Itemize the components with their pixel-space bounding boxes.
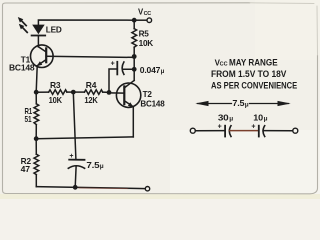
svg-text:AS PER CONVENIENCE: AS PER CONVENIENCE (211, 81, 297, 91)
wire T1 base to R5 node (46, 56, 134, 57)
svg-text:μ: μ (100, 163, 104, 170)
transistor T1 (31, 45, 54, 68)
svg-text:BC148: BC148 (140, 100, 165, 109)
svg-text:+: + (69, 153, 73, 160)
svg-text:7.5: 7.5 (232, 99, 245, 108)
wire T2 base to R4 node (109, 92, 124, 94)
node junction left rail mid (34, 136, 39, 141)
wire top rail (38, 20, 134, 25)
svg-text:12K: 12K (84, 96, 97, 105)
svg-text:T2: T2 (143, 90, 153, 99)
svg-text:CC: CC (220, 62, 228, 68)
svg-text:10K: 10K (139, 39, 154, 48)
node junction 7.5u cap / bottom rail (73, 185, 78, 190)
svg-text:R4: R4 (86, 81, 97, 90)
wire mid horizontal (T2 emitter return) (36, 137, 133, 139)
wire to right terminal (263, 130, 293, 132)
svg-text:μ: μ (161, 68, 165, 75)
svg-text:+: + (251, 124, 255, 131)
note text block (211, 57, 297, 90)
LED light arrows (18, 17, 27, 32)
svg-text:30: 30 (218, 113, 229, 122)
capacitor C1 0.047u (109, 62, 134, 93)
svg-text:10: 10 (253, 113, 263, 122)
transistor T2 (116, 80, 140, 107)
svg-text:+: + (218, 124, 222, 131)
node junction R3/R4 (71, 90, 76, 95)
node junction top (R5/rail) (132, 18, 137, 23)
resistor R3 (36, 90, 73, 95)
wire to 30u cap (195, 130, 225, 132)
LED D1 (32, 25, 46, 47)
node junction R5 bottom (132, 54, 137, 59)
resistor R2 (34, 139, 39, 187)
node output terminal bottom (145, 187, 149, 191)
svg-text:FROM 1.5V TO 18V: FROM 1.5V TO 18V (211, 69, 286, 79)
svg-text:R5: R5 (139, 30, 150, 39)
svg-text:+: + (111, 60, 115, 67)
wire R5 node to cap node (133, 57, 135, 70)
svg-text:BC148: BC148 (9, 63, 35, 72)
7.5u range arrow (195, 101, 290, 106)
node right terminal (293, 128, 298, 133)
svg-text:7.5: 7.5 (86, 161, 100, 170)
svg-text:μ: μ (229, 116, 233, 123)
svg-text:47: 47 (21, 165, 31, 174)
svg-text:0.047: 0.047 (140, 66, 161, 75)
node junction left rail / R3 (34, 90, 39, 95)
wire T2 emitter down (132, 107, 134, 137)
svg-text:51: 51 (25, 115, 32, 124)
svg-text:LED: LED (46, 26, 62, 35)
node Vcc terminal (147, 18, 152, 23)
resistor R1 (34, 92, 39, 139)
wire T2 collector to cap node (133, 69, 135, 80)
svg-text:MAY RANGE: MAY RANGE (229, 57, 278, 67)
svg-text:μ: μ (245, 101, 249, 108)
svg-text:10K: 10K (49, 96, 62, 105)
capacitor 10u (259, 126, 265, 137)
wire Vcc terminal stub (134, 19, 147, 21)
svg-text:μ: μ (264, 116, 268, 123)
svg-text:CC: CC (144, 11, 152, 17)
series caps demo: left terminal (190, 128, 195, 133)
svg-text:R3: R3 (50, 81, 61, 90)
node junction 0.047 cap / T2 collector (132, 67, 137, 72)
wire T1 emitter to R3 node (36, 66, 37, 92)
node junction R4/T2 base (107, 90, 112, 95)
capacitor 30u (225, 126, 231, 137)
capacitor C2 7.5u (68, 92, 84, 187)
resistor R4 (73, 90, 109, 95)
wire bottom rail (36, 187, 145, 189)
wire between caps (230, 130, 259, 132)
resistor R5 (132, 20, 137, 56)
